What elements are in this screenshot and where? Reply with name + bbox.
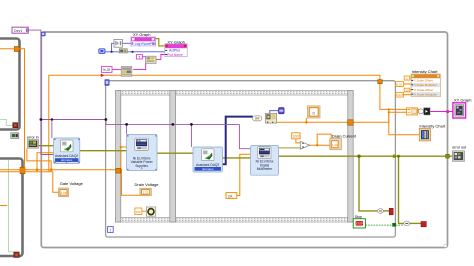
svg-text:Dev1: Dev1 xyxy=(14,29,22,33)
svg-text:1.23: 1.23 xyxy=(61,191,67,195)
svg-text:Multimeter: Multimeter xyxy=(257,167,273,171)
svg-text:10: 10 xyxy=(405,88,409,92)
svg-text:données: données xyxy=(61,158,73,162)
svg-text:XY Graph: XY Graph xyxy=(454,97,472,102)
svg-text:%.3f: %.3f xyxy=(103,68,110,72)
svg-text:1.23: 1.23 xyxy=(143,191,149,195)
svg-text:Drain Current: Drain Current xyxy=(332,133,357,138)
svg-text:Drain Voltage: Drain Voltage xyxy=(135,182,160,187)
svg-text:1000: 1000 xyxy=(293,135,301,139)
svg-text:100: 100 xyxy=(136,210,141,214)
svg-text:Supplies: Supplies xyxy=(135,164,148,168)
svg-text:-1: -1 xyxy=(405,76,408,80)
svg-text:XY Graph: XY Graph xyxy=(133,32,151,37)
svg-text:error out: error out xyxy=(452,146,466,150)
svg-text:Intensity Chart: Intensity Chart xyxy=(412,69,439,74)
svg-text:LogYNomPlot: LogYNomPlot xyxy=(135,42,156,46)
svg-text:2A: 2A xyxy=(228,194,233,198)
svg-text:Y.Scale.Multiplier: Y.Scale.Multiplier xyxy=(414,83,437,87)
svg-text:X.Scale.Multiplier: X.Scale.Multiplier xyxy=(414,92,437,96)
svg-text:0.01: 0.01 xyxy=(396,82,402,86)
svg-text:Plot.Name: Plot.Name xyxy=(167,53,183,57)
svg-text:X.Scale.Offset: X.Scale.Offset xyxy=(414,88,433,92)
svg-text:Gate Voltage: Gate Voltage xyxy=(60,181,84,186)
svg-text:i: i xyxy=(110,227,111,232)
svg-text:error in: error in xyxy=(27,135,39,139)
svg-text:Intensity Chart: Intensity Chart xyxy=(419,123,446,128)
svg-text:STOP: STOP xyxy=(356,222,363,226)
svg-text:0.025: 0.025 xyxy=(396,93,404,97)
svg-text:1.23: 1.23 xyxy=(332,143,338,147)
svg-text:données: données xyxy=(202,167,214,171)
svg-text:Y.Scale.Offset: Y.Scale.Offset xyxy=(414,79,433,83)
